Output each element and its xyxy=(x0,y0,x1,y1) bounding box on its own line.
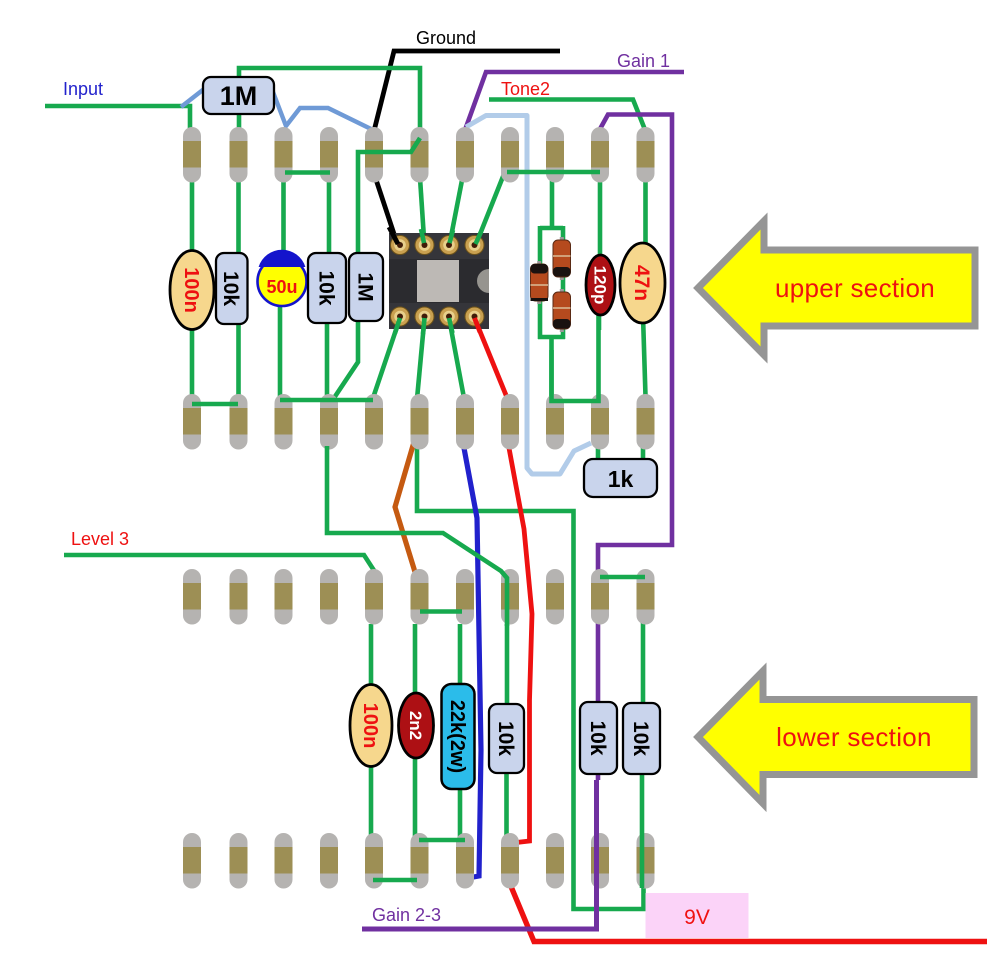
svg-text:Input: Input xyxy=(63,79,103,99)
node label Tone2 xyxy=(501,79,550,99)
node label Ground xyxy=(416,28,476,48)
op-amp U1 (8-pin DIP socket) xyxy=(389,233,489,329)
IC pin 6 xyxy=(440,307,459,326)
wire: 10k col2 leads (green) xyxy=(236,176,241,398)
value label 2n2 xyxy=(406,711,425,740)
wire: input to 1M left lead (blue) xyxy=(181,89,204,107)
svg-text:1M: 1M xyxy=(220,81,258,111)
svg-text:Tone2: Tone2 xyxy=(501,79,550,99)
value label 47n xyxy=(630,265,653,301)
wire: green pad B4 down across and through pad C8 xyxy=(327,446,507,626)
lower section arrow xyxy=(698,671,974,804)
wire: link pad D6 to pad D7 (green) xyxy=(419,838,465,843)
value label 120p xyxy=(590,266,609,305)
svg-text:10k: 10k xyxy=(586,720,609,755)
wire: 2n2 leads (green) xyxy=(413,624,418,838)
wire: Ground net (black) label stub and run to pad A5 and IC pin 1 xyxy=(374,51,561,246)
wire: diode pair feed from strip rail (green) xyxy=(538,172,565,396)
wire: link pads B3-B4-B5 (green) xyxy=(280,398,373,403)
wire: stubs into IC pin holes xyxy=(389,227,481,334)
svg-text:Level 3: Level 3 xyxy=(71,529,129,549)
solder pad strip row D (11 pads) xyxy=(183,833,655,889)
svg-text:100n: 100n xyxy=(180,267,202,313)
svg-text:50u: 50u xyxy=(266,277,297,297)
wire: IC pin 7 to pad B6 (green) xyxy=(417,318,425,399)
value label 50u xyxy=(266,277,297,297)
wire: 1M right lead to pads A3/A5 (blue) xyxy=(273,92,371,129)
wire: 47n leads (green) xyxy=(643,180,646,396)
wire: link pad A3 to pad A4 (green) xyxy=(285,170,330,175)
wire: IC pin 6 to pad B7 (green) xyxy=(449,318,464,398)
value label 1k xyxy=(608,466,634,492)
wire: red wire pad B8 down to pad D8 and off to bottom right xyxy=(508,448,987,942)
value label 10k xyxy=(586,720,609,755)
wire: green 10k col11 leads (lower) xyxy=(641,574,646,710)
wire: link pad C6 to pad C7 (green) xyxy=(420,609,462,614)
capacitor 2n2 xyxy=(399,693,434,758)
value label 10k xyxy=(219,271,242,306)
IC pin 5 xyxy=(465,307,484,326)
svg-text:10k: 10k xyxy=(314,270,337,305)
value label 100n xyxy=(180,267,202,313)
wire: link pad B1 to pad B2 (green) xyxy=(192,402,238,407)
resistor 22k(2w) xyxy=(442,684,475,789)
wire: 100n upper leads (green) xyxy=(190,176,195,398)
IC pin 1 xyxy=(391,236,410,255)
resistor 10k (lower col10) xyxy=(580,702,617,774)
wire: long green pad B6 down and around to pad D11 xyxy=(417,446,644,909)
value label 9V xyxy=(684,906,710,929)
resistor 1M (upper col5) xyxy=(349,253,383,321)
wire: Input net (green) from left edge to pad A1 xyxy=(45,106,190,140)
value label 1M xyxy=(353,272,376,301)
diode D3 (right bottom, cathode band bottom) xyxy=(553,289,571,332)
diode D1 (left, cathode band top) xyxy=(531,261,549,304)
resistor 10k (upper col4) xyxy=(308,253,346,323)
capacitor 100n (lower) xyxy=(350,685,392,767)
capacitor 120p xyxy=(586,255,615,315)
svg-text:Ground: Ground xyxy=(416,28,476,48)
wire: 1M bottom lead to pad B4 (green) xyxy=(334,320,358,398)
solder pad strip row C (11 pads) xyxy=(183,569,655,625)
wire: pad A8 to IC pin 4 (green) xyxy=(475,169,507,248)
solder pad strip row A (11 pads) xyxy=(183,127,655,183)
resistor 10k (lower col8) xyxy=(489,704,524,773)
svg-text:2n2: 2n2 xyxy=(406,711,425,740)
wire: purple upper segment through pad C10 into 10k xyxy=(596,570,601,780)
svg-text:22k(2w): 22k(2w) xyxy=(446,700,468,773)
svg-text:120p: 120p xyxy=(590,266,609,305)
wire: link pad D5 to pad D6 (green) xyxy=(373,878,417,883)
wire: 120p leads (green) xyxy=(599,172,600,330)
wire: Level 3 net (green) stub to pad C5 xyxy=(64,555,375,572)
value label 10k xyxy=(314,270,337,305)
svg-text:100n: 100n xyxy=(359,703,381,749)
svg-text:10k: 10k xyxy=(219,271,242,306)
svg-text:10k: 10k xyxy=(494,721,517,756)
solder pad strip row B (11 pads) xyxy=(183,394,655,450)
wire: pad A7 to IC pin 3 (green) xyxy=(449,170,464,247)
node label Level 3 xyxy=(71,529,129,549)
resistor 1k xyxy=(584,459,657,497)
wire: strip rail pad B8..B10 tie at row A bottoms (green) xyxy=(507,170,600,175)
wire: IC pin 5 to pad B8 (red) xyxy=(475,318,509,400)
diode D2 (right top, cathode band bottom) xyxy=(553,237,571,280)
IC pin 2 xyxy=(415,236,434,255)
node label Input xyxy=(63,79,103,99)
capacitor 50u (electrolytic) xyxy=(258,250,307,306)
svg-text:Gain 2-3: Gain 2-3 xyxy=(372,905,441,925)
wire: dark blue wire pad B7 down to pad D7 xyxy=(464,448,481,878)
resistor 10k (lower col11) xyxy=(623,703,660,774)
svg-text:lower section: lower section xyxy=(776,722,932,752)
wire: Tone2 net (green) stub to pad A11 xyxy=(489,100,646,132)
value label 1M xyxy=(220,81,258,111)
upper section arrow xyxy=(698,221,975,355)
IC pin 4 xyxy=(465,236,484,255)
node label Gain 1 xyxy=(617,51,670,71)
wire: 10k col11 lead through pad D11 (green) xyxy=(640,772,645,888)
wire: link pad C10 to pad C11 (green) xyxy=(600,575,645,580)
wire: green jumper pad A2 over 1M box to pad A6 xyxy=(239,68,420,130)
svg-text:9V: 9V xyxy=(684,906,710,929)
value label 22k(2w) xyxy=(446,700,468,773)
resistor 1M (top label box) xyxy=(203,77,274,114)
wire: 10k col8 leads (green) xyxy=(504,624,509,838)
wire: light blue long wire pad A7 to pad B10 xyxy=(466,116,591,475)
wire: 10k col4 leads (green) xyxy=(327,176,329,397)
capacitor 47n xyxy=(620,243,665,323)
wire: 100n lower leads (green) xyxy=(369,624,374,838)
wire: pad B10 and B11 leads into 1k (green) xyxy=(598,446,643,465)
wire: diode exit tie to 120p lead over pads B9-B10 (green) xyxy=(552,314,599,401)
svg-text:1M: 1M xyxy=(353,272,376,301)
wire: pad A6 to IC pin 2 (green) xyxy=(420,178,425,246)
IC pin 8 xyxy=(391,307,410,326)
wire: Gain 1 net (purple) stub to pad A7 xyxy=(465,72,684,130)
node label Gain 2-3 xyxy=(372,905,441,925)
value label 100n xyxy=(359,703,381,749)
svg-text:upper section: upper section xyxy=(775,273,935,303)
svg-text:10k: 10k xyxy=(629,721,652,756)
node 9V supply box xyxy=(646,893,749,938)
svg-text:Gain 1: Gain 1 xyxy=(617,51,670,71)
svg-text:47n: 47n xyxy=(630,265,653,301)
capacitor 100n (upper) xyxy=(170,251,214,330)
resistor 10k (upper col2) xyxy=(216,253,248,324)
wire: IC pin 8 to pad B5 (green) xyxy=(373,318,400,398)
value label 10k xyxy=(629,721,652,756)
value label 10k xyxy=(494,721,517,756)
wire: 22k(2w) leads (green) xyxy=(458,624,463,838)
svg-text:1k: 1k xyxy=(608,466,634,492)
wire: 50u leads (green) xyxy=(280,176,284,400)
wire: 1M top lead jumper to pad A6 (green, over pads) xyxy=(358,138,420,255)
IC pin 7 xyxy=(415,307,434,326)
wire: Gain 2-3 net (purple) from pad D10 to label stub xyxy=(362,780,597,929)
wire: purple long wire pad A10 down to pad C10 xyxy=(598,115,672,575)
IC pin 3 xyxy=(440,236,459,255)
wire: orange jumper pad B6 to pad C6 xyxy=(395,442,415,572)
